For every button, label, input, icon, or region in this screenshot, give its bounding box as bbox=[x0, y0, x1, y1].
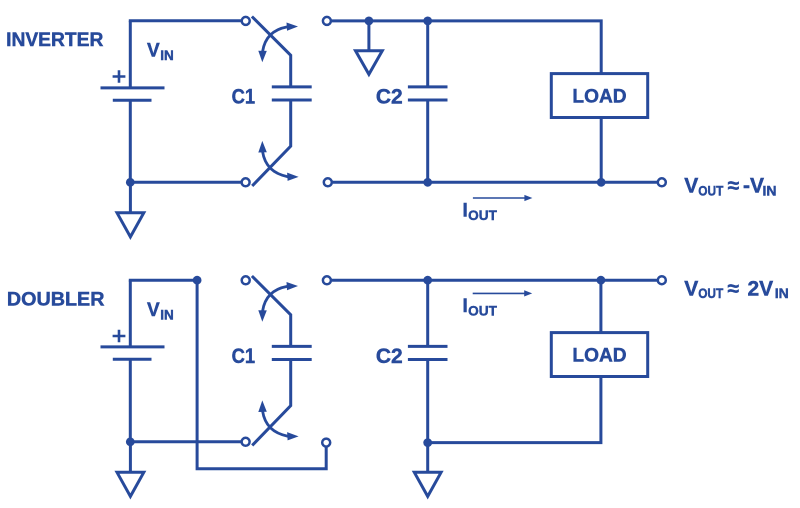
svg-text:C2: C2 bbox=[376, 345, 403, 368]
svg-text:IN: IN bbox=[775, 285, 789, 301]
svg-text:V: V bbox=[147, 41, 160, 62]
svg-text:≈: ≈ bbox=[728, 277, 740, 300]
svg-text:V: V bbox=[684, 175, 698, 198]
svg-text:OUT: OUT bbox=[698, 285, 723, 301]
svg-text:IN: IN bbox=[160, 48, 174, 63]
svg-text:I: I bbox=[463, 296, 468, 317]
svg-text:OUT: OUT bbox=[468, 304, 497, 319]
svg-text:2V: 2V bbox=[748, 277, 774, 300]
svg-text:DOUBLER: DOUBLER bbox=[7, 290, 105, 311]
svg-text:≈: ≈ bbox=[728, 175, 740, 198]
svg-text:C2: C2 bbox=[376, 85, 403, 108]
svg-text:OUT: OUT bbox=[468, 208, 497, 223]
svg-text:C1: C1 bbox=[232, 345, 256, 368]
svg-text:C1: C1 bbox=[232, 85, 256, 108]
svg-text:IN: IN bbox=[160, 307, 174, 322]
svg-text:V: V bbox=[684, 277, 698, 300]
svg-text:LOAD: LOAD bbox=[572, 85, 626, 107]
svg-text:V: V bbox=[147, 300, 160, 321]
svg-text:-V: -V bbox=[743, 175, 764, 198]
svg-text:OUT: OUT bbox=[698, 182, 723, 198]
svg-text:IN: IN bbox=[763, 183, 777, 199]
svg-text:LOAD: LOAD bbox=[572, 344, 626, 366]
svg-text:I: I bbox=[463, 200, 468, 221]
svg-text:INVERTER: INVERTER bbox=[6, 30, 104, 51]
